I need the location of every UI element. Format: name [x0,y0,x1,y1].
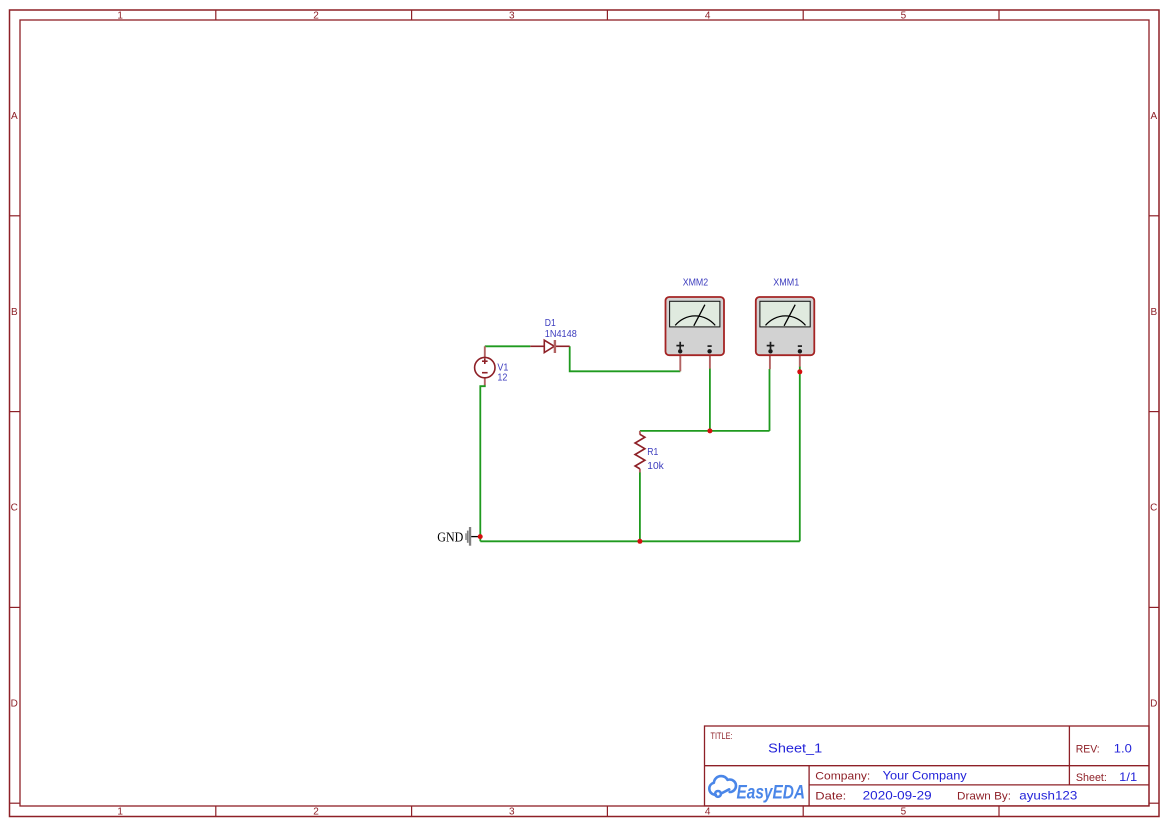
svg-text:TITLE:: TITLE: [711,731,733,742]
svg-text:3: 3 [509,11,515,22]
svg-text:5: 5 [901,807,907,818]
svg-text:D: D [11,699,18,710]
svg-text:1: 1 [117,807,123,818]
svg-text:GND: GND [437,530,463,545]
svg-text:2: 2 [313,807,319,818]
svg-text:4: 4 [705,11,711,22]
svg-text:C: C [11,503,18,514]
svg-text:ayush123: ayush123 [1019,789,1077,803]
svg-text:REV:: REV: [1076,744,1100,756]
svg-text:Your Company: Your Company [883,768,967,782]
svg-text:4: 4 [705,807,711,818]
svg-text:5: 5 [901,11,907,22]
svg-text:C: C [1150,503,1157,514]
svg-text:D1: D1 [545,318,556,329]
svg-text:Sheet_1: Sheet_1 [768,741,822,756]
svg-text:XMM2: XMM2 [683,278,709,289]
svg-text:1/1: 1/1 [1119,770,1137,784]
svg-text:2: 2 [313,11,319,22]
svg-text:Sheet:: Sheet: [1076,772,1107,784]
svg-text:1N4148: 1N4148 [545,329,577,340]
svg-text:B: B [1150,307,1157,318]
svg-text:R1: R1 [647,447,658,458]
svg-text:Company:: Company: [815,770,870,782]
svg-text:XMM1: XMM1 [773,278,799,289]
svg-text:A: A [11,111,18,122]
svg-text:2020-09-29: 2020-09-29 [863,789,932,803]
svg-text:B: B [11,307,18,318]
svg-text:A: A [1150,111,1157,122]
svg-text:12: 12 [497,372,507,383]
svg-text:EasyEDA: EasyEDA [737,782,806,804]
svg-text:3: 3 [509,807,515,818]
svg-text:D: D [1150,699,1157,710]
svg-text:1: 1 [117,11,123,22]
svg-text:Drawn By:: Drawn By: [957,791,1011,803]
svg-text:10k: 10k [647,461,665,472]
svg-text:Date:: Date: [815,791,846,803]
svg-text:1.0: 1.0 [1114,742,1132,756]
